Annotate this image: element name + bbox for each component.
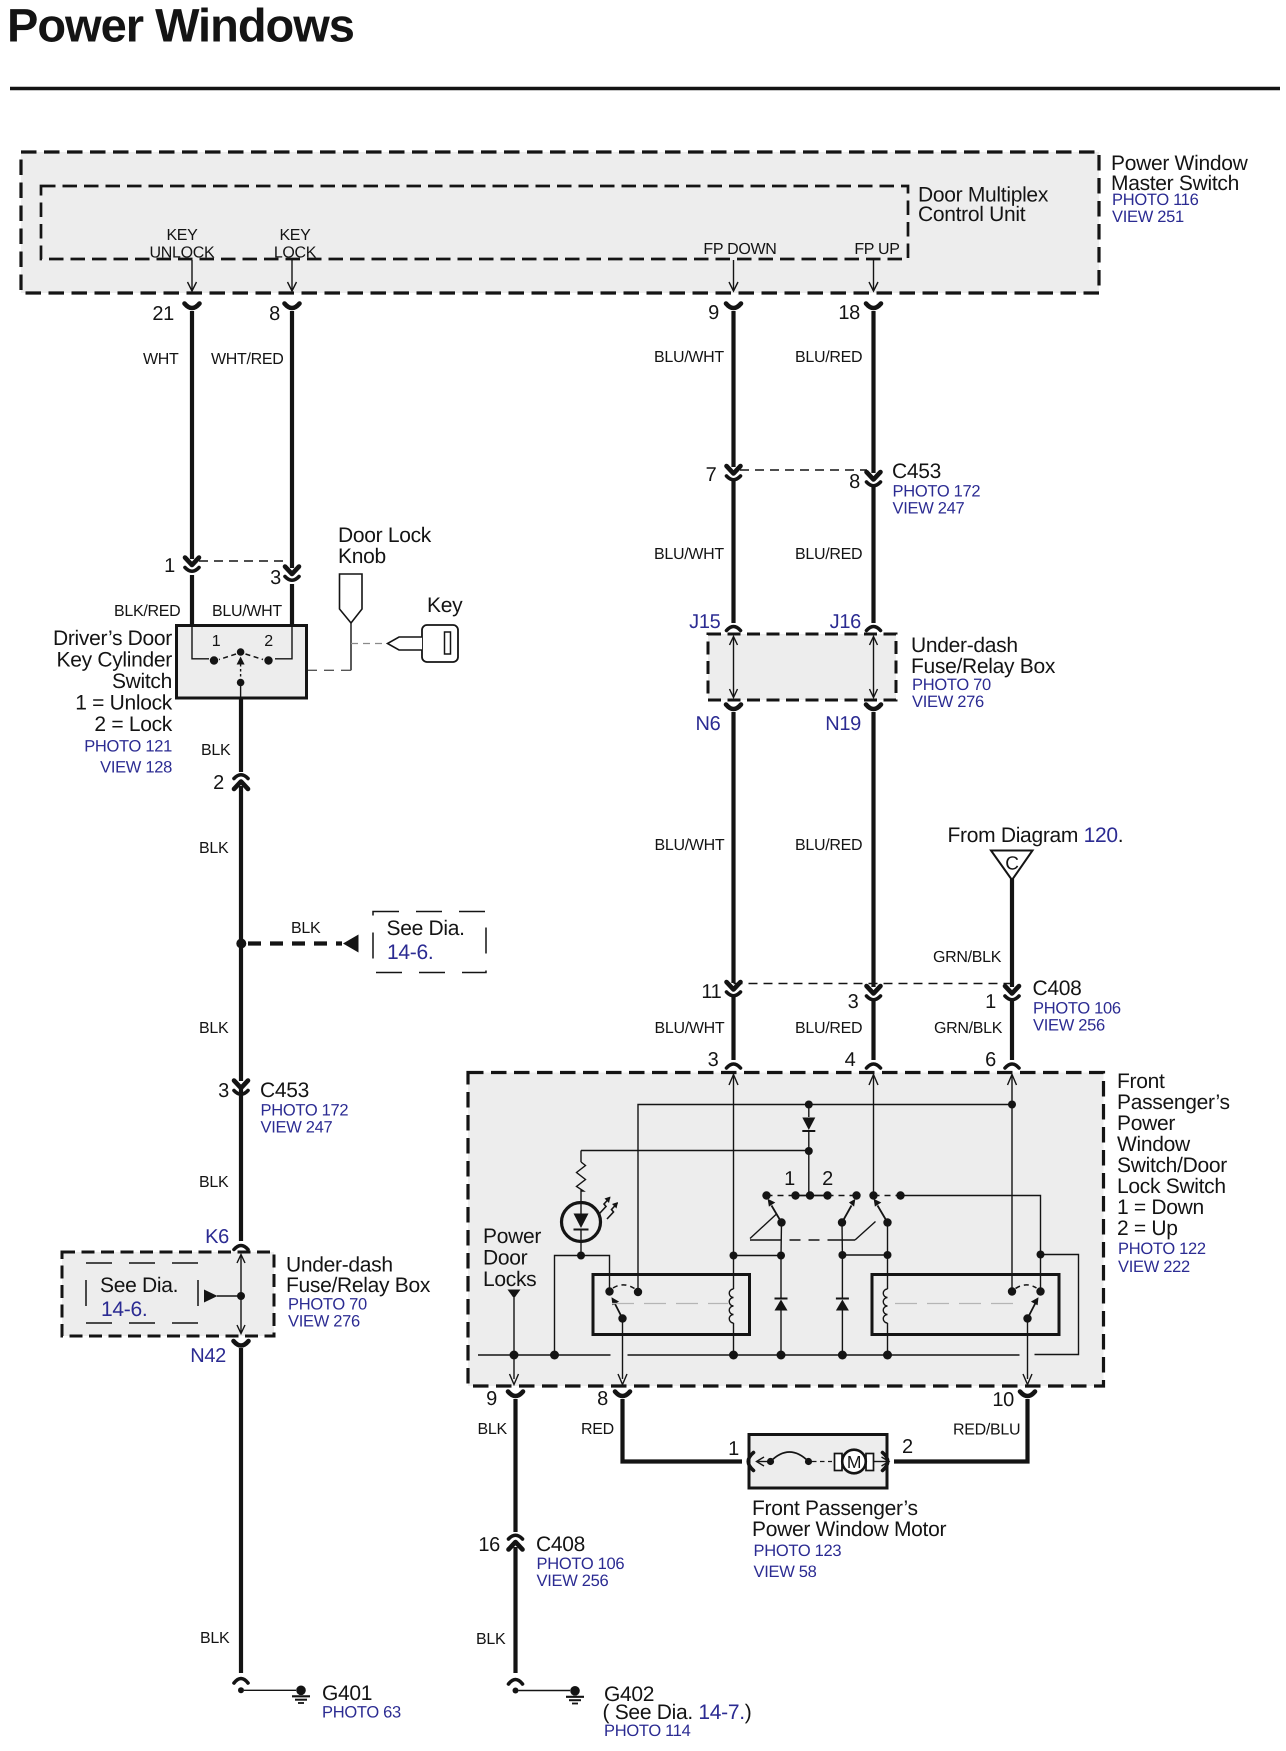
wire BLK N42 to G401 [239, 1348, 243, 1673]
fuse box internal arrow J15-N6 [730, 637, 738, 698]
svg-text:VIEW 58: VIEW 58 [754, 1563, 817, 1581]
knob linkage dashed into switch [307, 669, 351, 671]
switch common lead [240, 683, 242, 698]
svg-text:1 = Unlock: 1 = Unlock [75, 692, 173, 715]
LED indicator [562, 1203, 601, 1242]
fuse box internal arrow J16-N19 [870, 637, 878, 698]
svg-text:KEY: KEY [166, 227, 198, 244]
power door locks pointer [508, 1290, 521, 1299]
svg-text:BLK: BLK [478, 1421, 508, 1438]
rocker blade 3 [874, 1199, 888, 1223]
svg-text:See Dia.: See Dia. [100, 1274, 178, 1297]
wire BLU/RED 8 to J16 [871, 487, 875, 623]
svg-text:VIEW 222: VIEW 222 [1118, 1258, 1190, 1276]
wire GRN/BLK to pin 6 [1010, 1001, 1014, 1060]
wire BLK pin9 down [513, 1399, 517, 1532]
svg-text:Passenger’s: Passenger’s [1117, 1091, 1230, 1114]
svg-text:BLU/WHT: BLU/WHT [654, 349, 724, 366]
svg-text:PHOTO 123: PHOTO 123 [754, 1542, 842, 1560]
wire pole3 to right coil [887, 1223, 889, 1290]
junction dot BLK branch [236, 939, 246, 949]
wire WHT/RED pin8 [290, 311, 294, 568]
svg-text:BLU/RED: BLU/RED [795, 837, 862, 854]
wire pole2 to diode2 [841, 1223, 843, 1256]
wire BLU/WHT 7 to J15 [731, 481, 735, 623]
svg-text:N6: N6 [696, 713, 721, 735]
see dia 14-6 branch box [373, 912, 486, 973]
wire LED cathode [580, 1241, 582, 1256]
rocker blade 2 [842, 1199, 855, 1223]
connector C408 dashed link 11-3-1 [734, 983, 1013, 985]
relay K1 down box [593, 1275, 750, 1335]
wire BLU/WHT stub [290, 584, 294, 627]
svg-text:Power: Power [1117, 1112, 1175, 1135]
svg-text:6: 6 [985, 1049, 996, 1071]
svg-text:N42: N42 [190, 1345, 226, 1367]
relay K2 contact dashed arc [1016, 1285, 1037, 1289]
svg-text:2: 2 [902, 1436, 913, 1458]
svg-text:Key Cylinder: Key Cylinder [57, 649, 173, 672]
connector Y pin 21 [185, 304, 200, 309]
relay K2 contact C dot [1008, 1287, 1016, 1295]
motor internal right arrow [874, 1457, 889, 1466]
wire LED junction to relay contact A [581, 1256, 610, 1292]
branch arrowhead [343, 935, 359, 953]
key symbol [388, 625, 459, 662]
connector Y pin 9 [726, 304, 741, 309]
switch contact dot 1 [210, 656, 218, 664]
node NC branch junction [1037, 1251, 1045, 1259]
ground symbol G402 [566, 1686, 584, 1704]
connector Y pin 9 out [508, 1392, 523, 1397]
svg-text:BLK: BLK [199, 1020, 229, 1037]
svg-text:C453: C453 [260, 1079, 309, 1102]
wire K2 coil to bus [887, 1323, 889, 1355]
svg-text:( See Dia. 14-7.): ( See Dia. 14-7.) [603, 1701, 752, 1724]
svg-text:1: 1 [784, 1168, 795, 1190]
svg-text:See Dia.: See Dia. [387, 917, 465, 940]
svg-text:PHOTO 106: PHOTO 106 [1033, 1000, 1121, 1018]
wire K1 pole to pin 8 [622, 1319, 624, 1380]
exit arrow pin 9 [510, 1374, 519, 1385]
svg-text:M: M [847, 1452, 861, 1472]
pin label KEY LOCK [274, 227, 317, 262]
connector end G402 [509, 1680, 523, 1685]
svg-text:1 = Down: 1 = Down [1117, 1196, 1204, 1219]
label Front Passenger's Power Window Switch/Door Lock Switch [1117, 1070, 1230, 1276]
svg-text:GRN/BLK: GRN/BLK [933, 949, 1002, 966]
switch contact dot 2 [264, 656, 272, 664]
svg-text:Switch/Door: Switch/Door [1117, 1154, 1227, 1177]
svg-text:2: 2 [213, 772, 224, 794]
svg-text:Locks: Locks [483, 1268, 536, 1291]
label C408 PHOTO 106 VIEW 256 bottom [536, 1533, 624, 1590]
label Driver's Door Key Cylinder Switch block [53, 627, 173, 777]
svg-text:J15: J15 [689, 611, 721, 633]
relay K1 blade [612, 1297, 623, 1318]
svg-text:GRN/BLK: GRN/BLK [934, 1020, 1003, 1037]
relay K2 actuation dashed [895, 1303, 1020, 1305]
relay K1 actuation dashed [612, 1303, 728, 1305]
connector Y N42 [234, 1341, 249, 1346]
label Under-dash Fuse/Relay Box PHOTO 70 VIEW 276 [911, 634, 1056, 711]
wire BLK to junction [239, 786, 243, 1081]
connector pin 2 up [234, 775, 248, 789]
svg-text:BLK: BLK [291, 920, 321, 937]
svg-text:PHOTO 63: PHOTO 63 [322, 1704, 401, 1722]
node diode1 top [777, 1252, 785, 1260]
wire BLU/WHT to pin 3 [731, 997, 735, 1060]
see dia 14-6 inner box [86, 1263, 198, 1323]
label Front Passenger's Power Window Motor [752, 1497, 946, 1581]
wire pin4 internal to rocker contact [873, 1075, 875, 1196]
ground lead G401 [238, 1687, 296, 1693]
wire LED junction to bus [555, 1256, 582, 1356]
svg-text:18: 18 [838, 302, 860, 324]
svg-text:Power: Power [483, 1225, 541, 1248]
exit arrow pin 8 [618, 1374, 627, 1385]
svg-text:UNLOCK: UNLOCK [150, 245, 216, 262]
svg-text:WHT/RED: WHT/RED [211, 351, 284, 368]
connector triangle C from diagram 120 [991, 851, 1033, 881]
ground symbol G401 [292, 1686, 310, 1704]
label See Dia. 14-6. inner [100, 1274, 178, 1321]
svg-text:1: 1 [985, 991, 996, 1013]
rocker mechanical linkage [750, 1214, 876, 1240]
svg-text:2 = Up: 2 = Up [1117, 1217, 1178, 1240]
under-dash fuse/relay box left dashed box [62, 1252, 274, 1336]
svg-text:Fuse/Relay Box: Fuse/Relay Box [286, 1274, 431, 1297]
door multiplex control unit inner dashed box [41, 186, 908, 259]
pin arrow FP UP [869, 260, 878, 291]
svg-text:BLK: BLK [201, 742, 231, 759]
svg-text:3: 3 [218, 1080, 229, 1102]
svg-text:9: 9 [486, 1388, 497, 1410]
wire link diode2 to right coil [842, 1254, 887, 1256]
svg-text:BLU/WHT: BLU/WHT [654, 546, 724, 563]
wire pin3 internal to relay coil [733, 1075, 735, 1290]
connector C408 pin 3 [867, 986, 881, 1000]
svg-text:1: 1 [212, 633, 221, 650]
svg-text:VIEW 256: VIEW 256 [537, 1572, 609, 1590]
pin arrow KEY UNLOCK [188, 260, 197, 291]
motor connector left [748, 1453, 753, 1471]
svg-text:PHOTO 106: PHOTO 106 [537, 1555, 625, 1573]
resistor R indicator lamp [577, 1151, 586, 1203]
svg-text:1: 1 [728, 1438, 739, 1460]
bus junction dots [510, 1351, 893, 1360]
ground bus segment left [478, 1354, 611, 1356]
label Door Multiplex Control Unit [918, 184, 1049, 227]
switch blade dashed left [219, 654, 236, 660]
connector Y pin 8 [285, 304, 300, 309]
title rule [10, 87, 1280, 90]
label G401 PHOTO 63 [322, 1682, 401, 1722]
svg-text:PHOTO 116: PHOTO 116 [1112, 191, 1199, 209]
svg-text:LOCK: LOCK [274, 245, 317, 262]
front passenger power window motor box [749, 1435, 887, 1489]
svg-text:BLU/WHT: BLU/WHT [655, 837, 725, 854]
svg-text:2: 2 [822, 1168, 833, 1190]
svg-text:Window: Window [1117, 1133, 1191, 1156]
pin label KEY UNLOCK [150, 227, 216, 262]
wire WHT pin21 [190, 311, 194, 559]
svg-text:Lock Switch: Lock Switch [1117, 1175, 1226, 1198]
svg-text:KEY: KEY [279, 227, 311, 244]
svg-text:BLK: BLK [476, 1631, 506, 1648]
node right coil top [884, 1251, 892, 1259]
svg-text:K6: K6 [205, 1226, 229, 1248]
entry arrow pin 4 internal [869, 1075, 878, 1086]
svg-text:BLU/RED: BLU/RED [795, 349, 862, 366]
svg-text:14-6.: 14-6. [101, 1298, 147, 1321]
svg-text:BLU/WHT: BLU/WHT [655, 1020, 725, 1037]
node diode top junction line2 [805, 1101, 813, 1109]
svg-text:Fuse/Relay Box: Fuse/Relay Box [911, 655, 1056, 678]
connector end K6 [234, 1246, 248, 1250]
svg-text:N19: N19 [825, 713, 861, 735]
diode D1 center feed [802, 1105, 815, 1196]
under-dash fuse/relay box right dashed box [708, 634, 896, 700]
wire BLK/RED stub [190, 575, 194, 627]
connector end J16 [867, 627, 881, 631]
svg-text:BLU/RED: BLU/RED [795, 1020, 862, 1037]
motor connector right [883, 1453, 888, 1471]
connector Y pin 18 [866, 304, 881, 309]
svg-text:4: 4 [845, 1049, 856, 1071]
connector C453 pin 8 [867, 472, 881, 486]
entry arrow pin 3 internal [729, 1075, 738, 1086]
svg-text:Door: Door [483, 1247, 528, 1270]
connector Y pin 10 out [1020, 1392, 1035, 1397]
svg-text:From Diagram 120.: From Diagram 120. [948, 824, 1124, 847]
svg-text:VIEW 276: VIEW 276 [288, 1313, 360, 1331]
label Power Window Master Switch PHOTO 116 VIEW 251 [1111, 152, 1249, 226]
wire BLU/WHT pin9 [731, 311, 735, 467]
connector Y pin 8 out [615, 1392, 630, 1397]
svg-text:14-6.: 14-6. [387, 941, 433, 964]
wire GRN/BLK from C [1010, 879, 1014, 987]
svg-text:C453: C453 [892, 460, 941, 483]
connector 1-3 dashed link [199, 560, 285, 562]
relay K1 contact B dot [634, 1288, 642, 1296]
connector C453 pin 7 [727, 466, 741, 480]
svg-text:VIEW 256: VIEW 256 [1033, 1017, 1105, 1035]
wire BLU/RED to pin 4 [871, 1001, 875, 1060]
svg-text:VIEW 276: VIEW 276 [912, 693, 984, 711]
fuse box internal link line [217, 1295, 241, 1297]
relay K1 contact dashed arc [613, 1285, 635, 1289]
switch common dot [237, 679, 245, 687]
switch pin lead 2 [275, 627, 292, 659]
label Door Lock Knob [338, 524, 432, 568]
connector C408 pin 16 [509, 1535, 523, 1549]
svg-text:2 = Lock: 2 = Lock [94, 713, 172, 736]
svg-text:FP UP: FP UP [854, 241, 899, 258]
svg-text:BLU/RED: BLU/RED [795, 546, 862, 563]
label From Diagram 120. [948, 824, 1124, 847]
rocker bar contact dots [762, 1191, 904, 1199]
motor brush arc [767, 1452, 812, 1465]
connector end pin 6 [1005, 1064, 1019, 1068]
node LED junction [577, 1252, 585, 1260]
rocker pole dots [777, 1218, 891, 1226]
svg-text:PHOTO 114: PHOTO 114 [604, 1722, 691, 1740]
svg-text:VIEW 128: VIEW 128 [100, 759, 172, 777]
wire NC branch loop to bus [1035, 1255, 1079, 1355]
connector end pin 4 [867, 1064, 881, 1068]
label See Dia. 14-6. branch [387, 917, 465, 964]
wire pole1 to diode1 [780, 1223, 783, 1256]
svg-text:1: 1 [164, 555, 175, 577]
wire power door locks to pin 9 [513, 1298, 515, 1379]
svg-text:C408: C408 [1033, 977, 1082, 1000]
relay K1 coil [729, 1289, 733, 1323]
wire K1 coil to bus [733, 1323, 735, 1355]
svg-text:PHOTO 172: PHOTO 172 [893, 483, 981, 501]
relay K2 coil [883, 1289, 887, 1323]
switch pole arrow [237, 657, 245, 665]
wire RED/BLU pin10 to motor [894, 1399, 1028, 1462]
motor dashed link [812, 1461, 832, 1463]
svg-text:PHOTO 121: PHOTO 121 [84, 738, 172, 756]
svg-text:Knob: Knob [338, 545, 386, 568]
svg-text:VIEW 247: VIEW 247 [893, 500, 965, 518]
connector pin 1 [185, 558, 199, 572]
pin arrow FP DOWN [729, 260, 738, 291]
dashed BLK branch to See Dia [248, 941, 342, 945]
rocker bar dashed segments [767, 1195, 901, 1197]
key linkage dashed to knob [351, 643, 387, 645]
svg-text:RED: RED [581, 1421, 614, 1438]
label G402 See Dia. 14-7. PHOTO 114 [603, 1683, 752, 1740]
svg-text:C: C [1005, 854, 1018, 875]
wire BLK to G402 [513, 1547, 517, 1673]
ground lead G402 [513, 1688, 571, 1694]
wire pin6 internal to relay contact [1011, 1075, 1013, 1292]
relay K1 pole dot [618, 1314, 626, 1322]
label C453 PHOTO 172 VIEW 247 [892, 460, 980, 518]
svg-text:C408: C408 [536, 1533, 585, 1556]
svg-text:8: 8 [269, 303, 280, 325]
ground bus segment mid [628, 1354, 1020, 1356]
svg-text:3: 3 [848, 991, 859, 1013]
wire RED pin8 to motor [623, 1399, 743, 1462]
relay K1 contact A dot [605, 1287, 613, 1295]
svg-text:Driver’s Door: Driver’s Door [53, 627, 172, 650]
wire BLU/WHT N6 to C408 [731, 712, 735, 983]
wire resistor feed line [581, 1150, 809, 1152]
connector C408 pin 1 [1005, 986, 1019, 1000]
connector pin 3 [285, 567, 299, 581]
svg-text:16: 16 [478, 1534, 500, 1556]
connector C453 dashed link 7-8 [740, 469, 867, 471]
svg-text:2: 2 [264, 633, 273, 650]
switch pivot dot [237, 648, 245, 656]
label C453 PHOTO 172 VIEW 247 left [260, 1079, 348, 1137]
svg-text:Front Passenger’s: Front Passenger’s [752, 1497, 918, 1520]
svg-text:VIEW 251: VIEW 251 [1112, 208, 1184, 226]
diode D2 [775, 1256, 788, 1356]
svg-text:Control Unit: Control Unit [918, 203, 1026, 226]
svg-text:Front: Front [1117, 1070, 1165, 1093]
relay K2 blade [1028, 1297, 1039, 1318]
node diode bottom junction [805, 1147, 813, 1155]
svg-text:PHOTO 172: PHOTO 172 [261, 1102, 349, 1120]
svg-text:PHOTO 70: PHOTO 70 [912, 676, 991, 694]
wire BLK to K6 [239, 1089, 243, 1241]
LED light arrows [600, 1197, 619, 1220]
fuse box internal arrow K6-N42 [237, 1255, 245, 1334]
svg-text:10: 10 [992, 1389, 1014, 1411]
node diode2 top [838, 1251, 846, 1259]
knob linkage line [350, 623, 352, 670]
svg-text:BLU/WHT: BLU/WHT [212, 603, 282, 620]
svg-text:PHOTO 70: PHOTO 70 [288, 1296, 367, 1314]
svg-text:Switch: Switch [112, 670, 172, 693]
wire branch pin6 to left relay contact B [638, 1105, 1012, 1293]
node pin3-diode1 junction [730, 1252, 738, 1260]
wire BLU/RED pin18 [871, 311, 875, 473]
svg-text:8: 8 [597, 1388, 608, 1410]
label C408 PHOTO 106 VIEW 256 [1033, 977, 1121, 1035]
svg-text:7: 7 [706, 464, 717, 486]
svg-text:WHT: WHT [143, 351, 179, 368]
switch pin lead 1 [192, 627, 209, 659]
svg-text:Power Windows: Power Windows [7, 0, 354, 52]
wire BLU/RED N19 to C408 [871, 712, 875, 987]
connector end pin 3 [727, 1064, 741, 1068]
svg-text:Door Lock: Door Lock [338, 524, 432, 547]
connector Y N6 [726, 705, 741, 710]
diode D3 [836, 1255, 849, 1355]
connector C408 pin 11 [727, 982, 741, 996]
svg-text:9: 9 [708, 302, 719, 324]
motor internal left arrow [757, 1457, 771, 1466]
svg-text:8: 8 [849, 471, 860, 493]
motor M armature [835, 1450, 874, 1474]
pin arrow KEY LOCK [288, 260, 297, 291]
svg-text:VIEW 247: VIEW 247 [261, 1119, 333, 1137]
relay K2 contact D dot [1036, 1287, 1044, 1295]
svg-text:3: 3 [270, 567, 281, 589]
wire NC contact to right relay contact D [901, 1196, 1041, 1292]
entry arrow pin 6 internal [1008, 1075, 1017, 1086]
wire link pin3 to diode1 [734, 1255, 782, 1257]
connector end J15 [727, 627, 741, 631]
svg-text:RED/BLU: RED/BLU [953, 1422, 1020, 1439]
switch pole dotted link [240, 664, 242, 679]
svg-text:BLK/RED: BLK/RED [114, 603, 180, 620]
svg-text:21: 21 [152, 303, 174, 325]
rocker blade 1 [768, 1199, 782, 1223]
label Power Door Locks [483, 1225, 541, 1291]
svg-text:Under-dash: Under-dash [911, 634, 1018, 657]
svg-text:11: 11 [701, 981, 721, 1003]
relay K2 pole dot [1023, 1314, 1031, 1322]
node pin6 branch junction [1008, 1101, 1016, 1109]
wire BLK below switch [239, 698, 243, 772]
switch blade dashed right [246, 654, 264, 660]
relay K2 up box [872, 1275, 1059, 1335]
svg-text:J16: J16 [830, 611, 862, 633]
wire K2 pole to pin 10 [1027, 1319, 1029, 1380]
power window master switch outer dashed box [21, 152, 1099, 293]
driver's door key cylinder switch box [177, 626, 307, 699]
svg-text:3: 3 [708, 1049, 719, 1071]
svg-text:BLK: BLK [200, 1630, 230, 1647]
svg-text:G401: G401 [322, 1682, 372, 1705]
